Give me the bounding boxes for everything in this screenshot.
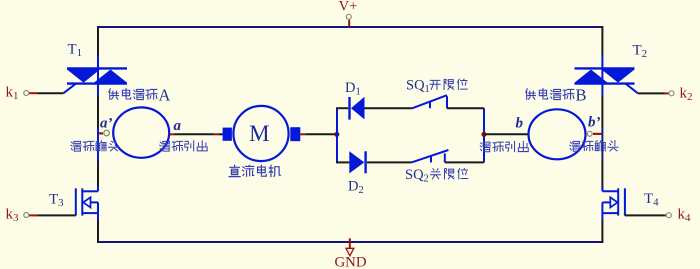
terminal k1 [6,85,64,103]
wire left rail lower [97,161,99,190]
node junction left of box [334,132,339,137]
svg-text:M: M [249,121,269,146]
terminal k2 [638,86,693,104]
wire left rail upper [97,26,99,56]
wire right rail middle [601,96,603,129]
svg-text:A: A [159,86,171,105]
svg-text:b’: b’ [588,115,601,131]
mosfet T4 [602,186,659,220]
label 供电滑环B [526,86,587,105]
wire left rail mid-lower blue segment [97,128,99,161]
label 供电滑环A [109,86,171,105]
wire right rail mid-lower blue segment [601,128,603,161]
node junction right of box [481,132,486,137]
terminal k4 [625,207,691,225]
label 关限位 [430,168,467,178]
wire D1 to SQ1 [365,107,413,109]
wire right rail upper [601,26,603,56]
label 滑环引出 left [160,141,207,151]
power terminal V+ [339,0,358,27]
label 直流电机 [229,165,280,176]
triac T1 [64,42,128,96]
switch SQ2 (NC limit, close-limit) [405,150,448,184]
motor M [223,106,301,161]
svg-text:a’: a’ [100,116,113,132]
label 滑环引出 right [480,141,528,151]
svg-text:GND: GND [334,255,366,269]
wire motor to diode box [300,133,337,135]
svg-text:V+: V+ [339,0,358,15]
wire bottom rail GND [98,241,602,243]
wire SQ2 to box right rail [445,161,484,163]
label 滑环触头 left [71,141,119,152]
wire box left rail [336,108,338,162]
ground GND [334,238,366,269]
svg-text:a: a [174,118,182,134]
switch SQ1 (NC limit, open-limit) [406,78,447,109]
wire right rail lower [601,161,603,190]
mosfet T3 [49,186,98,220]
diode D1 [336,80,365,120]
wire left rail middle [97,96,99,129]
slip ring B [529,109,586,159]
diode D2 [336,151,366,196]
wire box to slip ring B [484,116,529,135]
node a wire [169,118,223,134]
wire left rail bottom [97,219,99,243]
wire D2 to SQ2 [367,161,412,163]
slip ring A [113,107,169,157]
node a' terminal [99,116,113,136]
label 滑环触头 right [570,141,618,152]
svg-text:B: B [576,86,587,105]
triac T2 [575,43,648,96]
wire top rail V+ [98,26,602,28]
node b' terminal [587,115,601,137]
svg-text:b: b [516,116,524,132]
label 开限位 [430,79,467,89]
terminal k3 [6,207,76,225]
wire right rail bottom [601,219,603,243]
wire SQ1 to box right rail [447,107,484,109]
wire box right rail [483,108,485,162]
